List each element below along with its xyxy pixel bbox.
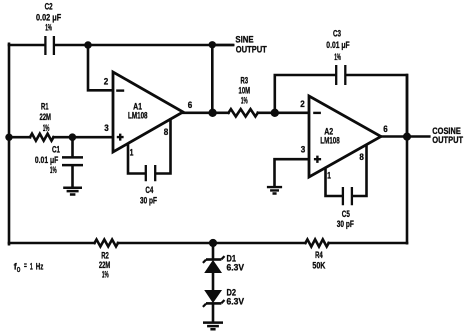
wire C3 feedback loop [275,75,407,137]
svg-text:OUTPUT: OUTPUT [236,45,267,56]
svg-text:6: 6 [188,100,193,111]
wire top feedback bus [9,44,44,47]
wire R3 run [212,112,308,115]
svg-text:C3: C3 [333,28,341,39]
svg-text:6.3V: 6.3V [227,297,245,308]
A1 minus sign [116,89,124,91]
wire A1 pin1 [128,144,144,174]
svg-text:LM108: LM108 [128,110,148,121]
wire R1 run to pin3 [9,136,112,139]
wire A1 output [183,112,212,115]
wire sine node vertical [211,45,214,113]
svg-text:6: 6 [383,124,388,135]
junction node sine output [209,41,216,48]
wire diode branch top [212,243,215,258]
capacitor C4 [146,165,155,181]
wire right vertical bus [406,75,409,243]
capacitor C2 [45,36,54,55]
resistor R1 [30,134,54,141]
svg-text:1%: 1% [102,269,109,280]
junction node top bus to pin2 [84,41,92,49]
A1 plus sign [117,134,124,141]
svg-text:Hz: Hz [36,261,44,272]
svg-text:1%: 1% [334,52,341,63]
svg-text:1%: 1% [50,165,57,176]
junction node R1/C1 [69,133,77,141]
svg-text:30 pF: 30 pF [140,196,157,207]
A2 minus sign [313,112,321,114]
svg-text:0.01 μF: 0.01 μF [326,40,350,51]
junction node cosine output [403,133,411,141]
svg-text:6.3V: 6.3V [227,263,245,274]
svg-text:3: 3 [104,123,109,134]
svg-text:C2: C2 [45,2,53,13]
svg-text:8: 8 [164,127,169,138]
svg-text:2: 2 [104,77,109,88]
wire bottom bus [9,242,407,245]
zener diode D2 [206,291,221,302]
svg-text:R1: R1 [41,101,49,112]
wire D2 to ground [212,304,215,322]
op-amp A2 [309,96,381,177]
svg-text:3: 3 [301,145,306,156]
svg-text:LM108: LM108 [320,136,340,147]
svg-text:=: = [24,261,27,272]
wire between D1 and D2 [212,272,215,291]
wire A2 pin8 [353,146,366,197]
svg-text:2: 2 [300,99,305,110]
capacitor C3 [336,65,345,85]
svg-text:1: 1 [30,261,33,272]
svg-text:50K: 50K [312,260,325,271]
wire A2 pin1 [326,168,342,196]
ground at A2 pin3 [267,187,282,193]
zener diode D1 [206,258,221,261]
svg-text:C4: C4 [145,185,153,196]
ground below C1 [63,188,82,195]
svg-text:8: 8 [359,152,364,163]
svg-text:C1: C1 [52,144,60,155]
junction node A1 output [208,109,216,117]
svg-text:OUTPUT: OUTPUT [432,135,463,146]
svg-text:1%: 1% [241,95,248,106]
capacitor C1 [71,137,74,156]
resistor R4 [305,239,328,246]
svg-text:1%: 1% [43,123,50,134]
junction node A2 summing [271,109,279,117]
junction node diode branch [209,239,217,247]
ground below D2 [203,323,223,330]
svg-text:1: 1 [327,171,331,182]
wire A2 pin3 to ground [275,159,309,186]
svg-text:1%: 1% [45,22,52,33]
wire sine output stub [212,44,233,47]
svg-text:22M: 22M [39,112,51,123]
resistor R2 [95,240,119,247]
junction node on left bus at R1 [5,134,12,141]
wire pin2 drop A1 [88,45,112,90]
A2 plus sign [314,156,321,163]
capacitor C5 [343,187,352,205]
wire left vertical bus [8,44,11,244]
svg-text:30 pF: 30 pF [337,219,354,230]
wire cosine output stub [407,135,429,138]
op-amp A1 [113,72,183,152]
wire A2 output [381,135,407,138]
wire A1 pin8 [156,120,170,174]
resistor R3 [229,109,258,116]
svg-text:1: 1 [130,148,134,159]
svg-text:O: O [17,267,21,274]
